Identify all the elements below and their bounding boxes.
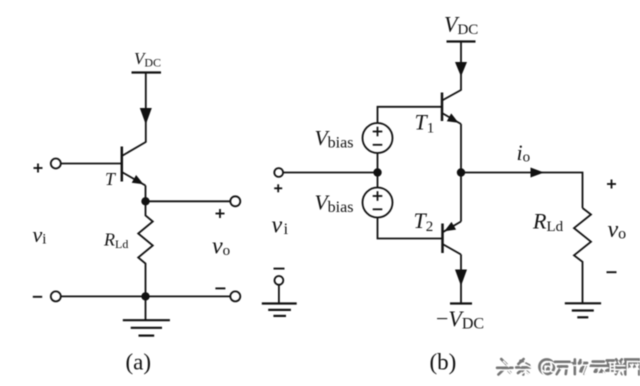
svg-text:Vbias: Vbias [315, 126, 354, 152]
wire T1 base to Vbias1 [378, 107, 443, 123]
current arrow on collector wire (a) [140, 108, 152, 125]
wire Vbias1 to node [377, 153, 379, 173]
minus sign inside Vbias1 [373, 144, 383, 146]
plus sign inside Vbias2 [373, 191, 383, 201]
current arrow io [531, 168, 545, 178]
minus sign vo (b) [607, 271, 617, 273]
input reference terminal circle (b) [275, 276, 284, 285]
svg-text:T2: T2 [414, 208, 434, 235]
transistor T emitter arrow [132, 175, 144, 184]
svg-text:RLd: RLd [532, 209, 564, 236]
input terminal circle bottom (a) [51, 291, 61, 301]
transistor T2 emitter arrow [444, 222, 456, 231]
plus sign output (a) [216, 209, 225, 218]
current arrow on T2 collector wire [455, 270, 467, 287]
input terminal circle (a) [51, 159, 61, 169]
svg-text:io: io [517, 140, 531, 166]
resistor RLd (a) [138, 201, 153, 296]
wire T1 emitter to output node [460, 124, 462, 173]
wire base input (a) [61, 163, 122, 165]
plus sign vo (b) [607, 180, 616, 189]
transistor T1 emitter arrow [447, 113, 459, 122]
svg-text:vo: vo [608, 217, 627, 243]
node ground junction (a) [141, 292, 149, 300]
ground symbol (b input) [262, 304, 297, 316]
transistor T emitter diagonal [122, 172, 146, 186]
wire output top (a) [146, 200, 231, 202]
transistor T base bar [121, 147, 124, 182]
plus sign inside Vbias1 [373, 127, 383, 137]
svg-text:vo: vo [212, 234, 230, 260]
transistor T1 collector diagonal [442, 90, 461, 101]
svg-text:vi: vi [272, 213, 289, 239]
wire T2 emitter from node [460, 173, 462, 222]
minus sign input (a) [33, 296, 42, 298]
watermark shadow layer [497, 359, 639, 374]
transistor T collector diagonal [122, 142, 146, 156]
svg-text:(a): (a) [126, 350, 152, 375]
svg-text:T: T [105, 169, 117, 189]
power rail VDC bar (a) [132, 71, 162, 73]
svg-text:(b): (b) [430, 350, 457, 375]
input terminal circle (b) [274, 168, 283, 177]
plus sign input (a) [34, 164, 43, 173]
svg-text:−VDC: −VDC [436, 306, 484, 333]
ground symbol (a) [123, 320, 170, 335]
bottom wire rail (a) [61, 295, 231, 297]
node between sources [373, 168, 381, 176]
transistor T1 emitter diagonal [442, 113, 461, 124]
ground symbol (b right) [565, 303, 601, 317]
wire input (b) [283, 172, 378, 174]
source Vbias1 circle [363, 123, 393, 153]
resistor RLd (b) [574, 208, 591, 303]
wire collector supply T1 [460, 42, 462, 91]
wire Vbias2 to T2 base [378, 218, 443, 239]
svg-text:T1: T1 [415, 110, 435, 137]
svg-text:VDC: VDC [134, 49, 161, 70]
svg-text:vi: vi [33, 222, 47, 248]
transistor T2 emitter diagonal [443, 222, 462, 233]
transistor T2 base bar [441, 224, 444, 254]
power rail -VDC bar [450, 302, 472, 304]
current arrow on T1 collector wire [455, 62, 467, 77]
wire node to ground (a) [145, 296, 147, 320]
svg-text:VDC: VDC [444, 12, 478, 39]
plus sign input (b) [274, 184, 282, 192]
minus sign inside Vbias2 [373, 208, 383, 210]
output terminal circle bottom (a) [230, 291, 240, 301]
wire reference to ground (b) [278, 285, 280, 304]
output terminal circle top (a) [230, 196, 240, 206]
wire emitter to node (a) [145, 186, 147, 202]
transistor T1 base bar [441, 93, 444, 122]
watermark highlight layer [499, 361, 640, 376]
source Vbias2 circle [363, 188, 393, 218]
minus sign output (a) [215, 287, 225, 289]
svg-text:RLd: RLd [103, 230, 128, 252]
power rail +VDC bar (b) [447, 40, 476, 42]
wire collector supply (a) [145, 73, 147, 143]
node output junction (b) [457, 168, 465, 176]
minus sign input reference (b) [274, 268, 285, 270]
wire T2 collector to -VDC [460, 255, 462, 304]
svg-text:Vbias: Vbias [315, 191, 354, 217]
transistor T2 collector diagonal [443, 244, 462, 255]
node emitter/output junction (a) [141, 197, 149, 205]
wire node to Vbias2 [377, 173, 379, 188]
wire output to RLd [461, 173, 583, 209]
